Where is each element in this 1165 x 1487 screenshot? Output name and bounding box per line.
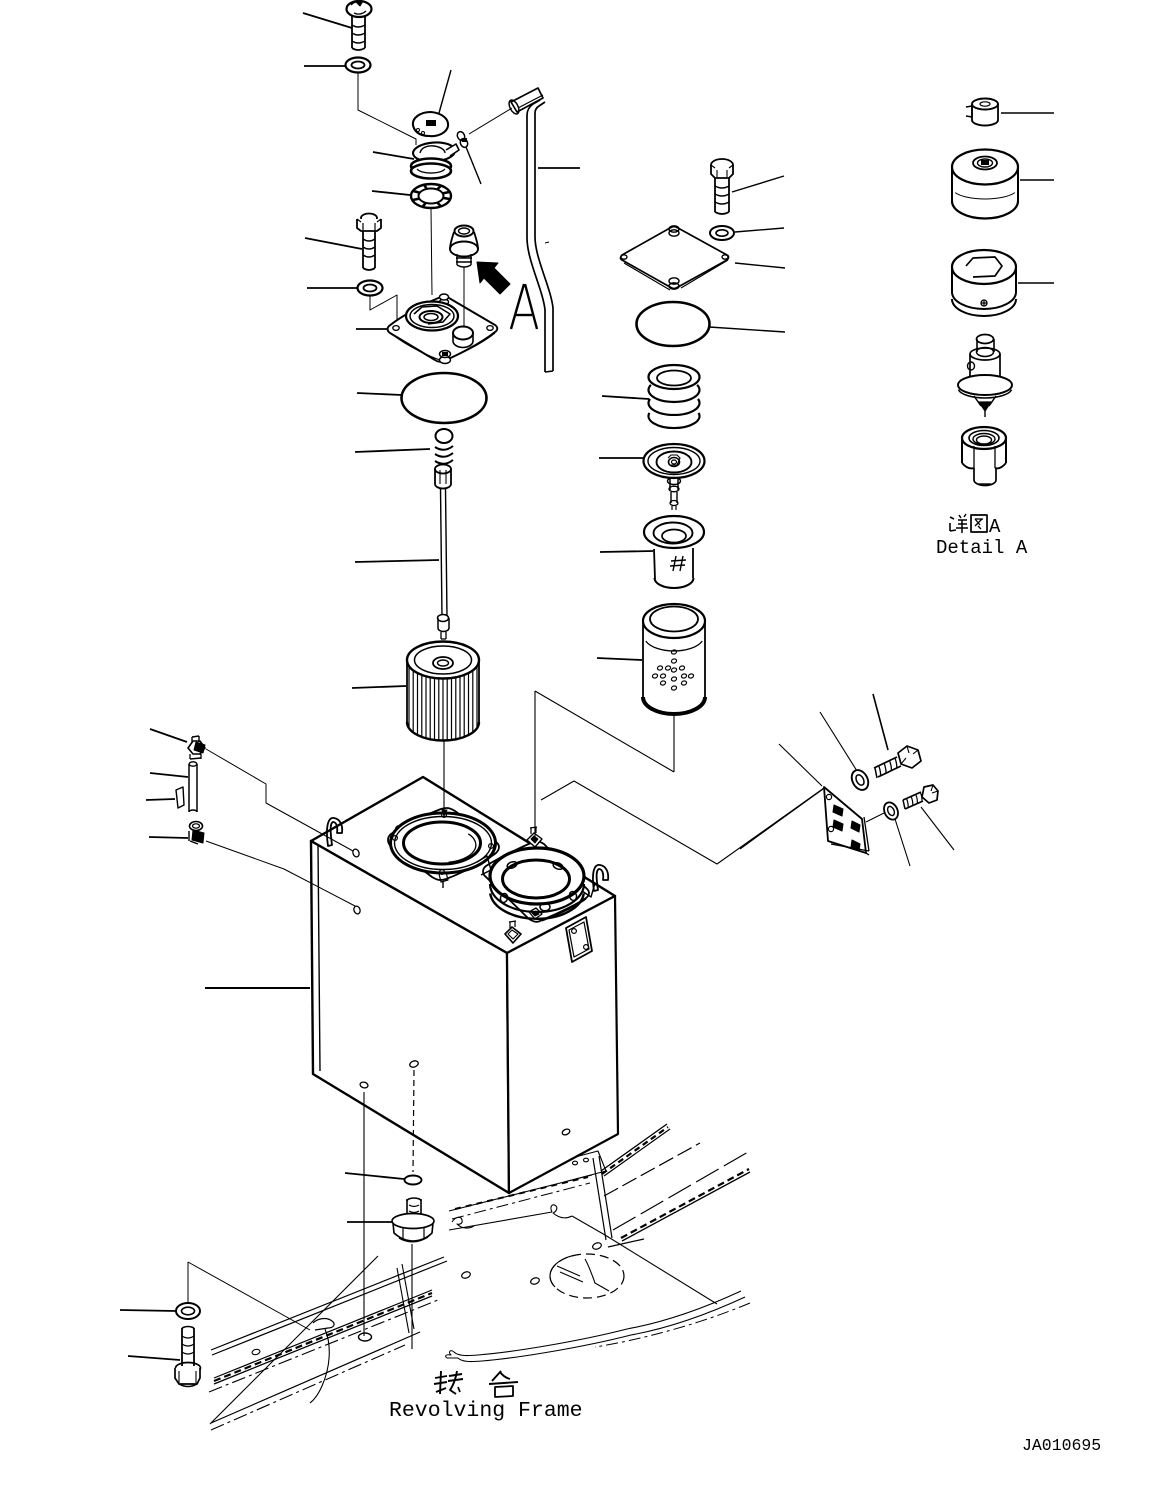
revolving frame, rail under tank hatch bbox=[455, 1177, 588, 1209]
wedge packing left bbox=[176, 787, 184, 808]
leader to dipstick pipe bbox=[538, 167, 580, 169]
revolving frame, right rail line 2 dashed bbox=[604, 1143, 700, 1196]
mount washer 1 bbox=[848, 767, 871, 793]
square cover plate bbox=[621, 227, 729, 289]
mount bolt 1 bbox=[898, 746, 921, 768]
hydraulic tank body faces (white fill) bbox=[311, 777, 615, 953]
leader to spring large bbox=[602, 396, 649, 399]
svg-text:Detail A: Detail A bbox=[936, 537, 1028, 559]
mount bolt 2 bbox=[922, 785, 938, 803]
tank front face fitting hole lower bbox=[353, 905, 361, 915]
revolving frame, left rail dash-dot bbox=[209, 1300, 438, 1392]
bolt B2 shank with threads bbox=[362, 231, 364, 268]
breather body base rings bbox=[411, 159, 451, 174]
leader to drain plug bbox=[347, 1221, 392, 1223]
detail A cap with tab bbox=[972, 99, 998, 110]
witness washer W4 up to frame bbox=[187, 1262, 189, 1303]
O-ring large bbox=[402, 373, 487, 423]
tank front face fitting hole upper bbox=[352, 848, 360, 858]
breather body spout bbox=[446, 144, 459, 156]
tank lifting hook left bbox=[327, 818, 342, 846]
revolving frame, plate hole mid bbox=[530, 1277, 541, 1286]
revolving frame, bracket double line steep bbox=[593, 1158, 606, 1240]
strainer sleeve bbox=[654, 549, 655, 579]
leader to breather cap bbox=[439, 70, 451, 113]
leader to washer W1 bbox=[304, 65, 345, 67]
revolving frame, right rail line 3 dashed bbox=[613, 1152, 748, 1230]
leader to elbow fitting lower bbox=[149, 837, 188, 838]
detail A rubber cylinder bbox=[952, 150, 1018, 185]
bolt B1 shank with threads bbox=[351, 16, 353, 48]
tank flange 2 corner tab right bbox=[582, 878, 595, 897]
detail A caption chinese bbox=[950, 517, 954, 519]
tank flange 2 collar lower band arcs bbox=[490, 884, 584, 912]
spring large bbox=[649, 365, 700, 389]
washer W2 bbox=[358, 281, 383, 296]
mount plate bbox=[824, 787, 866, 853]
tank flange 2 top corner nut (witness target) bbox=[527, 833, 542, 847]
revolving frame, bracket foot bolt dots bbox=[573, 1161, 578, 1165]
leader to strainer bbox=[600, 551, 653, 552]
revolving frame, big hole solid arc bbox=[550, 1254, 581, 1287]
filter 2 hole pattern bbox=[671, 649, 677, 655]
witness mount plate lower-left bbox=[740, 789, 823, 849]
witness elbow lower to tank hole bbox=[206, 841, 355, 906]
filter element pleat lines bbox=[408, 666, 410, 728]
breather body bbox=[412, 141, 455, 163]
revolving frame, bracket foot under tank bbox=[556, 1151, 606, 1182]
bolt B3 shank with threads bbox=[714, 178, 716, 212]
leader to bolt B3 bbox=[732, 176, 784, 192]
cover plate corner holes bbox=[393, 326, 399, 331]
cotter pin on chain bbox=[456, 130, 466, 141]
witness path tank to mount plate (jogged) bbox=[541, 781, 824, 864]
revolving frame, plate right edge bbox=[605, 1235, 717, 1304]
revolving frame, right rail band 1 double with hatch bbox=[601, 1124, 667, 1171]
tank flange 2 plate (right opening) bbox=[483, 841, 589, 922]
leader to disc bbox=[599, 457, 643, 459]
leader to gasket bbox=[345, 1173, 404, 1179]
witness valve to cover port bbox=[463, 267, 465, 327]
washer W4 bottom-left bbox=[176, 1303, 200, 1319]
witness elbow upper to tank hole (jogged) bbox=[206, 749, 353, 851]
lock ring washer bbox=[411, 184, 451, 208]
leader to detail cap bbox=[1001, 112, 1054, 114]
tank flange 1 outer ring bbox=[391, 813, 496, 873]
tank right face hole bbox=[561, 1128, 570, 1136]
elbow fitting upper-left bbox=[188, 741, 205, 754]
filter element 2 cylinder bbox=[643, 604, 705, 638]
frame wire hanging curve bbox=[310, 1329, 329, 1403]
tank flange 1 inner ring (opening) bbox=[404, 822, 481, 864]
dipstick pipe cap bbox=[511, 88, 543, 112]
revolving frame, front edge hook end bbox=[446, 1351, 458, 1358]
tube fitting left bbox=[189, 762, 197, 766]
level gauge rod end fitting bbox=[438, 615, 449, 622]
leader to detail cylinder bbox=[1020, 179, 1054, 181]
tank flange 2 corner tab left bbox=[477, 856, 491, 875]
tank flange 1 inner arc detail bbox=[449, 834, 476, 862]
filter element center hub bbox=[433, 657, 453, 669]
mount plate small circles bbox=[826, 794, 831, 799]
leader line to tank bbox=[205, 987, 310, 989]
svg-text:Revolving Frame: Revolving Frame bbox=[389, 1399, 583, 1423]
drain plug bbox=[406, 1199, 408, 1216]
level gauge rod bbox=[441, 489, 443, 617]
leader to washer W4 bbox=[120, 1310, 176, 1311]
revolving frame, right rail band 4 with hatch bbox=[622, 1172, 750, 1241]
tank drain dashed witness line bbox=[413, 1070, 414, 1172]
tank flange 2 inner ring (opening) bbox=[503, 860, 570, 898]
leader to washer W2 bbox=[307, 287, 357, 289]
tank flange 1 bottom corner bolt bbox=[439, 872, 448, 882]
leader to mount bolt 1 bbox=[873, 694, 888, 750]
tank lifting hook right bbox=[593, 865, 608, 891]
detail A adapter nut bbox=[962, 427, 1006, 449]
pin chain line to pipe cap bbox=[469, 108, 512, 134]
tank top face square nut bbox=[505, 927, 521, 943]
svg-text:A: A bbox=[989, 516, 1001, 538]
tank top face small hole bbox=[394, 825, 403, 835]
washer W3 bbox=[710, 226, 734, 240]
small spring bbox=[436, 429, 453, 443]
revolving frame, left rail lowest dash-dot bbox=[211, 1345, 405, 1430]
witness washer W1 to breather (jogged) bbox=[358, 73, 416, 145]
big letter A bbox=[511, 284, 524, 329]
leader to elbow fitting upper bbox=[150, 729, 187, 742]
revolving frame, plate hole top-right bbox=[592, 1242, 603, 1251]
revolving frame, rail squiggle clip bbox=[452, 1217, 474, 1228]
revolving frame, hole flag line bbox=[585, 1259, 609, 1291]
bolt B4 bottom-left (head down) bbox=[181, 1328, 183, 1366]
revolving frame, plate top-right edge bbox=[572, 1216, 605, 1235]
revolving frame, front curved edge (double) bbox=[454, 1291, 741, 1356]
square plate corner bosses bbox=[669, 226, 679, 232]
elbow fitting lower-left bbox=[190, 822, 203, 831]
leader to filter 2 bbox=[597, 658, 642, 660]
witness plate to washer 2 bbox=[866, 813, 884, 822]
svg-text:JA010695: JA010695 bbox=[1022, 1436, 1101, 1455]
revolving frame, plate top-left edge bbox=[449, 1212, 552, 1230]
leader to rod bbox=[355, 560, 439, 562]
frame wire attach hook bbox=[313, 1319, 334, 1330]
tank front face hole bottom-left bbox=[359, 1081, 368, 1088]
witness ring to cover plate bbox=[431, 209, 432, 295]
cover plate small port cylinder bbox=[453, 327, 473, 340]
bolt B2 hex head bbox=[361, 214, 377, 223]
leader to bolt B4 bbox=[128, 1356, 180, 1360]
cover plate center boss rings bbox=[406, 302, 458, 331]
detail A valve core bbox=[977, 335, 994, 344]
air valve (Detail A pointer target) bbox=[450, 232, 478, 249]
revolving frame, right rail short piece bbox=[608, 1239, 644, 1247]
revolving frame, left rail lower edge bbox=[211, 1332, 420, 1423]
revolving frame, left rail main band with hatch bbox=[214, 1296, 432, 1384]
mount washer 2 bbox=[881, 800, 900, 822]
leader to washer W3 bbox=[735, 228, 784, 232]
detail A spacer ring bbox=[952, 250, 1016, 284]
leader to breather body bbox=[373, 152, 414, 159]
strainer hash mark bbox=[673, 556, 676, 571]
leader to bolt B2 bbox=[305, 238, 362, 249]
witness washer W2 to cover plate (jogged) bbox=[370, 295, 397, 325]
leader to O-ring 2 bbox=[709, 327, 785, 332]
level gauge rod top fitting bbox=[435, 465, 451, 474]
cover plate top boss bbox=[440, 299, 449, 305]
revolving frame, hatch marks in hole bbox=[557, 1266, 580, 1276]
breather cap bbox=[413, 112, 448, 136]
witness line drain plug to frame bbox=[411, 1244, 413, 1349]
cover plate bottom boss bbox=[440, 357, 451, 364]
tank flange 2 collar ring bbox=[490, 848, 584, 904]
leader to detail ring bbox=[1018, 282, 1054, 284]
leader to filter element bbox=[352, 686, 406, 688]
revolving frame, rail under tank (solid) bbox=[449, 1175, 592, 1211]
witness line from washer 2 down bbox=[895, 819, 910, 866]
revolving frame, rail hole at witness line bbox=[359, 1333, 372, 1341]
leader to wedge packing bbox=[146, 799, 175, 800]
tank right face cover fixture bbox=[566, 917, 592, 962]
disc stem bbox=[669, 478, 671, 490]
witness line tank hole to frame (vertical) bbox=[363, 1092, 365, 1336]
revolving frame, left rail hole bbox=[251, 1348, 260, 1355]
mount plate black holes bbox=[833, 805, 843, 816]
leader to bolt B1 bbox=[303, 13, 352, 28]
tank front face drain hole bbox=[409, 1060, 419, 1069]
revolving frame, cross member steep pair bbox=[397, 1268, 409, 1333]
caption chinese: revolving frame bbox=[435, 1376, 447, 1378]
leader to O-ring bbox=[357, 393, 402, 395]
tank flange 2 bottom corner nut bbox=[529, 908, 542, 919]
tank flange 2 face oval holes bbox=[506, 860, 517, 869]
drain plug gasket bbox=[405, 1176, 422, 1185]
O-ring 2 bbox=[637, 302, 710, 346]
revolving frame, plate hole left bbox=[461, 1271, 472, 1280]
leader to mount plate bbox=[779, 744, 822, 786]
tank flange 1 corner bolt dots bbox=[393, 836, 398, 841]
dipstick pipe bbox=[527, 100, 540, 115]
breather cover plate bbox=[388, 296, 498, 361]
pin chain line down bbox=[466, 147, 481, 184]
leader to square plate bbox=[735, 263, 785, 268]
filter element bottom rim bbox=[407, 722, 479, 741]
tank left edge lip double line bbox=[318, 845, 320, 1071]
bolt B1 top-left, phillips head bbox=[347, 1, 372, 17]
strainer funnel flange bbox=[644, 516, 704, 548]
leader to small spring bbox=[355, 449, 430, 452]
leader to cover plate bbox=[356, 328, 388, 330]
revolving frame, wire clip curl on plate edge bbox=[551, 1205, 572, 1218]
tank flange 2 side oval holes bbox=[499, 893, 508, 904]
leader to lock ring bbox=[372, 191, 410, 195]
witness line filter element to flange 1 bbox=[443, 740, 445, 812]
revolving frame, front dash-dot below curve bbox=[595, 1303, 750, 1347]
filter element pleated bbox=[407, 642, 479, 679]
revolving frame, big hole dashed circle bbox=[550, 1254, 624, 1298]
revolving frame, rail under tank (dash-dot) bbox=[452, 1183, 590, 1219]
witness line from bolt 2 down-right bbox=[921, 807, 954, 850]
black arrow pointing to valve bbox=[477, 262, 510, 294]
bolt B3 hex head bbox=[711, 159, 733, 171]
washer W1 bbox=[346, 58, 371, 73]
tank flange 1 plate (left opening) bbox=[388, 808, 499, 880]
revolving frame, left rail inner edge pair bbox=[211, 1257, 444, 1350]
leader to tube fitting bbox=[150, 773, 188, 777]
bypass valve disc bbox=[644, 444, 705, 478]
leader to mount plate washer bbox=[820, 712, 857, 771]
witness line right column to flange 2 (jogged) bbox=[673, 714, 675, 772]
revolving frame, plate left edge (steep) bbox=[210, 1256, 378, 1424]
